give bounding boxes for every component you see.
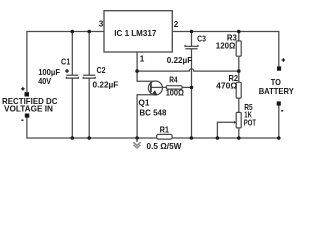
svg-text:C2: C2 <box>97 66 106 75</box>
svg-text:BATTERY: BATTERY <box>259 87 295 96</box>
svg-text:BC 548: BC 548 <box>139 109 166 118</box>
svg-text:R4: R4 <box>169 75 178 84</box>
svg-text:100Ω: 100Ω <box>166 88 185 97</box>
svg-text:120Ω: 120Ω <box>216 42 236 51</box>
svg-text:2: 2 <box>174 20 179 29</box>
svg-text:C1: C1 <box>61 58 71 67</box>
svg-text:Q1: Q1 <box>138 99 150 108</box>
svg-text:100µF: 100µF <box>38 68 60 77</box>
svg-text:3: 3 <box>99 19 104 28</box>
svg-text:40V: 40V <box>38 77 51 86</box>
svg-text:R1: R1 <box>160 125 170 134</box>
svg-text:1: 1 <box>140 55 145 64</box>
svg-text:C3: C3 <box>197 35 206 44</box>
svg-text:0.22µF: 0.22µF <box>167 56 193 65</box>
svg-text:470Ω: 470Ω <box>216 82 237 91</box>
svg-text:POT: POT <box>244 119 256 128</box>
svg-text:IC 1 LM317: IC 1 LM317 <box>114 29 156 38</box>
svg-text:0.22µF: 0.22µF <box>93 80 119 89</box>
svg-text:0.5 Ω/5W: 0.5 Ω/5W <box>147 142 182 151</box>
svg-text:VOLTAGE IN: VOLTAGE IN <box>4 105 53 114</box>
svg-text:TO: TO <box>271 78 282 87</box>
